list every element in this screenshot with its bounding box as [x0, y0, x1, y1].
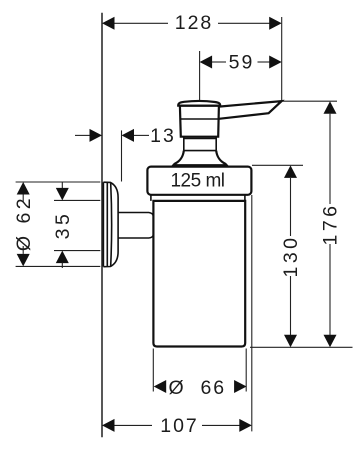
dimension 130	[252, 165, 303, 347]
shared bottom extension line	[250, 346, 353, 348]
wall	[101, 13, 103, 438]
glass bottle	[153, 201, 245, 347]
bottle neck	[151, 195, 245, 201]
pump head body	[178, 101, 220, 137]
svg-text:Ø 66: Ø 66	[168, 377, 226, 399]
svg-text:176: 176	[320, 202, 342, 245]
dimension 59	[200, 51, 282, 100]
dimension 35	[52, 183, 100, 269]
dimension D66	[153, 349, 246, 400]
svg-text:107: 107	[160, 415, 199, 437]
pump spout lever	[219, 101, 282, 119]
pump collar	[173, 151, 226, 166]
wall plate	[103, 182, 118, 267]
svg-text:130: 130	[280, 234, 302, 277]
svg-text:Ø 62: Ø 62	[13, 195, 35, 251]
svg-text:59: 59	[229, 52, 255, 74]
dimension 107	[102, 195, 252, 437]
svg-text:13: 13	[150, 125, 176, 147]
svg-text:128: 128	[175, 12, 214, 34]
holder ring	[147, 167, 251, 195]
dimension 176	[283, 101, 342, 347]
svg-text:35: 35	[52, 211, 74, 240]
pump stem	[184, 137, 216, 151]
mounting arm	[118, 213, 153, 239]
dimension D62	[13, 182, 100, 266]
dimension 128	[102, 12, 282, 101]
dimension 13	[75, 125, 176, 181]
svg-text:125 ml: 125 ml	[170, 170, 224, 191]
